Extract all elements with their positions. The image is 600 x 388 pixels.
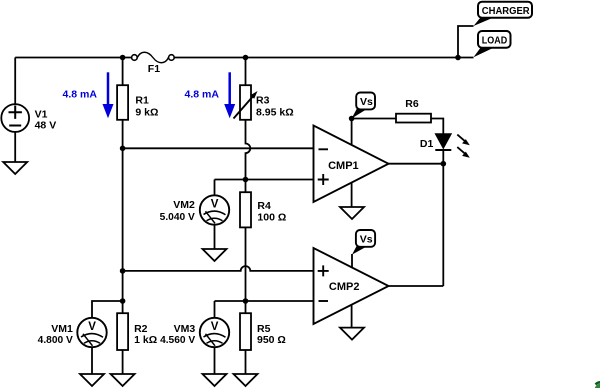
ground (VM1) [80, 374, 104, 386]
wire top rail right segment to LOAD tail [174, 57, 474, 59]
wire V1 top lead [14, 58, 16, 105]
junction node (CMP1 output / D1 cathode) [441, 161, 447, 167]
resistor R1 [117, 85, 128, 120]
wire VM1 to ground [91, 347, 93, 374]
wire VM2 to ground [214, 225, 216, 249]
resistor R4 [240, 192, 251, 227]
wire node C to CMP2 non-inverting input (hops over middle column) [123, 266, 314, 271]
svg-text:CHARGER: CHARGER [482, 5, 530, 17]
wire CMP1 V- pin to ground [351, 182, 353, 207]
svg-text:V: V [88, 321, 96, 333]
wire VM3 riser [214, 301, 216, 318]
junction node (rail / R3) [243, 55, 249, 61]
current arrow 4.8 mA (R1 branch) [103, 72, 114, 118]
resistor R6 [396, 114, 431, 123]
svg-text:4.800 V: 4.800 V [38, 335, 73, 346]
svg-text:D1: D1 [420, 138, 434, 150]
wire CMP2 output [389, 285, 444, 287]
junction node (rail / R1) [120, 55, 126, 61]
label CHARGER callout [474, 2, 533, 26]
wire rail to R1 [122, 58, 124, 86]
wire left column R1 bottom to R2 top [122, 120, 124, 313]
ground (CMP1) [340, 207, 364, 219]
wire Vs node to R6 left [352, 118, 396, 120]
wire CMP1 output [389, 163, 444, 165]
wire node C to CMP1 inverting input [123, 147, 314, 149]
svg-text:R4: R4 [257, 200, 271, 212]
ground (VM2) [203, 249, 227, 261]
svg-text:V: V [211, 199, 219, 211]
label V1 48 V [35, 109, 57, 132]
svg-text:4.8 mA: 4.8 mA [185, 88, 220, 100]
watermark green glyph bottom-right corner [595, 382, 600, 388]
svg-text:8.95 kΩ: 8.95 kΩ [256, 107, 294, 119]
node Vs callout (CMP2 supply) [352, 230, 375, 255]
svg-text:R1: R1 [135, 94, 149, 106]
voltmeter VM1 [77, 318, 106, 347]
svg-text:CMP1: CMP1 [328, 160, 359, 172]
voltage source V1 [1, 104, 29, 132]
svg-text:F1: F1 [148, 63, 160, 75]
wire V1 bottom lead to ground [14, 132, 16, 162]
wire Vs2 tail to CMP2 V+ pin [351, 254, 353, 267]
junction node C (R1-R2 to CMP1 inverting) [120, 146, 126, 152]
svg-text:5.040 V: 5.040 V [160, 212, 195, 223]
wire rail to CHARGER tail [458, 26, 474, 58]
wire VM2 riser [214, 180, 216, 196]
wire top rail left segment [15, 57, 132, 59]
wire R3 bottom to node A (hops over CMP1 input wire) [246, 120, 251, 192]
label R2 1 kOhm [134, 323, 157, 346]
wire node A to CMP1 non-inverting input [215, 179, 314, 181]
label LOAD callout [474, 31, 511, 57]
ground (V1) [3, 162, 27, 174]
label R5 950 Ohm [257, 323, 286, 346]
voltmeter VM3 [200, 318, 229, 347]
resistor R2 [117, 313, 128, 350]
svg-text:Vs: Vs [360, 234, 373, 246]
svg-text:CMP2: CMP2 [329, 281, 360, 293]
wire VM1 tap [92, 301, 123, 318]
op-amp U2 CMP2 [314, 248, 389, 324]
svg-text:R3: R3 [256, 94, 270, 106]
svg-text:Vs: Vs [360, 96, 373, 108]
label R4 100 Ohm [257, 200, 286, 223]
wire CMP2 V- pin to ground [351, 305, 353, 328]
junction node (rail / CHARGER riser) [455, 55, 461, 61]
LED D1 [435, 134, 470, 158]
junction node (R2 top / VM1) [120, 298, 126, 304]
junction node (left column to CMP2 non-inverting) [120, 268, 126, 274]
svg-text:950 Ω: 950 Ω [257, 334, 286, 346]
resistor R3 (variable) [234, 85, 258, 120]
svg-text:LOAD: LOAD [482, 35, 508, 47]
svg-text:48 V: 48 V [35, 119, 57, 131]
ground (CMP2) [340, 328, 364, 340]
fuse F1 [132, 52, 175, 63]
label R1 9 kOhm [135, 94, 158, 118]
ground (R5) [234, 374, 258, 386]
svg-text:9 kΩ: 9 kΩ [135, 107, 158, 119]
svg-text:VM1: VM1 [51, 323, 73, 335]
svg-text:100 Ω: 100 Ω [257, 211, 286, 223]
current arrow 4.8 mA (R3 branch) [224, 72, 235, 118]
ground (VM3) [203, 374, 227, 386]
wire Vs node to CMP1 V+ pin [351, 119, 353, 146]
label VM3 4.560 V [160, 323, 195, 346]
wire R4 bottom to node B [245, 227, 247, 301]
wire R2 to ground [122, 350, 124, 374]
label VM2 5.040 V [160, 199, 195, 223]
svg-text:1 kΩ: 1 kΩ [134, 334, 157, 346]
node Vs callout (CMP1 supply) [352, 93, 375, 119]
wire R6 right to D1 anode [431, 119, 443, 134]
voltmeter VM2 [200, 195, 229, 224]
wire rail to R3 [245, 58, 247, 86]
resistor R5 [240, 313, 251, 350]
junction node Vs (R6 / CMP1 supply) [349, 116, 355, 122]
op-amp U1 CMP1 [314, 126, 389, 203]
label VM1 4.800 V [38, 323, 73, 346]
svg-text:R6: R6 [405, 98, 419, 110]
wire node B to CMP2 inverting input [215, 300, 314, 302]
svg-text:4.8 mA: 4.8 mA [63, 88, 98, 100]
svg-text:VM2: VM2 [173, 199, 195, 211]
label R3 8.95 kOhm [256, 94, 294, 118]
junction node A (R3-R4, VM2, CMP1 non-inverting) [243, 177, 249, 183]
svg-text:V: V [211, 321, 219, 333]
junction node B (R4-R5, VM3, CMP2 inverting) [243, 298, 249, 304]
ground (R2) [111, 374, 135, 386]
wire VM3 to ground [214, 347, 216, 374]
svg-text:VM3: VM3 [174, 323, 196, 335]
wire R5 to ground [245, 350, 247, 374]
svg-text:4.560 V: 4.560 V [160, 335, 195, 346]
wire D1 cathode down to CMP2 output [442, 150, 444, 286]
wire node B to R5 [245, 301, 247, 313]
